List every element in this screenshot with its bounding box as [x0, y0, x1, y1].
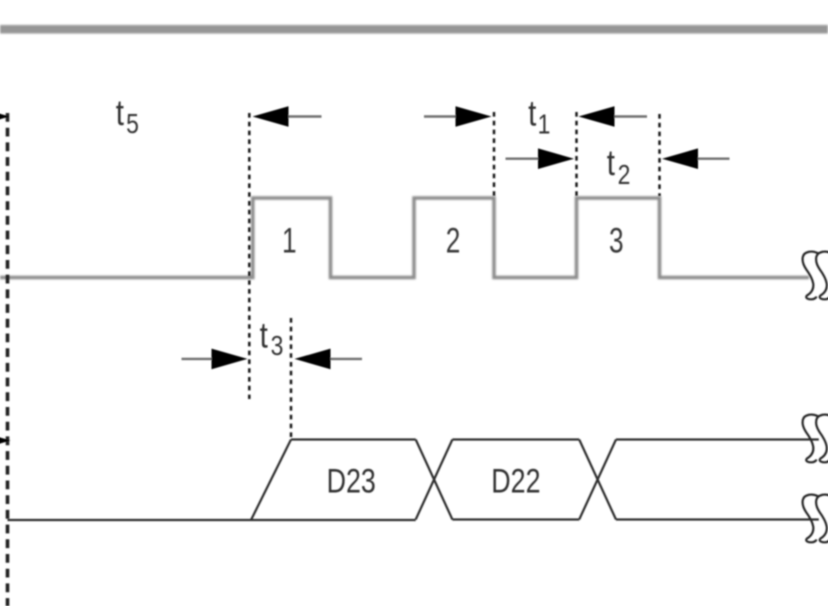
svg-text:t: t: [528, 93, 536, 133]
data bus D22 rails: [452, 440, 579, 520]
label D23: [327, 462, 376, 500]
label clock pulse 3: [609, 221, 624, 261]
svg-text:t: t: [116, 92, 124, 132]
label t3: [260, 315, 284, 362]
data bus DOUT bottom rail (idle through D23): [8, 519, 416, 521]
dashed line at clock rising edge 1: [248, 113, 251, 399]
bus top rail break squiggle: [803, 415, 828, 463]
svg-text:t: t: [607, 142, 615, 182]
svg-text:3: 3: [609, 221, 624, 261]
t5 arrow pointing left at edge-1 dashed line: [253, 106, 322, 127]
svg-text:3: 3: [271, 331, 284, 362]
label clock pulse 1: [282, 221, 297, 261]
t2 arrow pointing left at edge-3-fall dashed line: [662, 148, 730, 169]
t3 arrow pointing right at edge-1 dashed line: [182, 349, 248, 370]
dashed line at clock falling edge 3: [658, 114, 661, 196]
t1 arrow pointing right at edge-2 dashed line: [424, 106, 492, 127]
clock waveform SCLK: [0, 198, 809, 278]
svg-text:D22: D22: [491, 462, 540, 500]
clock break squiggle: [803, 252, 828, 300]
label clock pulse 2: [446, 221, 461, 261]
bus bottom rail break squiggle: [803, 495, 828, 543]
dashed line at clock rising edge 3: [575, 112, 578, 196]
data bus opening diagonal (t3 transition): [251, 440, 291, 521]
data bus D23 top rail: [291, 438, 416, 440]
left event dashed line: [6, 113, 10, 606]
top border line: [0, 25, 828, 34]
svg-text:1: 1: [282, 221, 297, 261]
t2 arrow pointing right at edge-3 dashed line: [506, 148, 575, 169]
arrowhead into left event line (data bus level, clipped at left edge): [0, 430, 11, 451]
label t5: [116, 92, 139, 139]
svg-text:t: t: [260, 315, 268, 355]
bus crossover X between D23 and D22: [416, 440, 453, 520]
arrowhead into left event line (row t5, clipped at left edge): [0, 106, 10, 127]
svg-text:5: 5: [126, 109, 139, 140]
svg-text:2: 2: [618, 160, 631, 191]
svg-text:D23: D23: [327, 462, 376, 500]
label t1: [528, 93, 550, 140]
t3 arrow pointing left at data-valid dashed line: [295, 349, 363, 370]
label t2: [607, 142, 631, 190]
svg-text:2: 2: [446, 221, 461, 261]
dashed line at clock falling edge 2: [493, 112, 496, 196]
t1 arrow pointing left at edge-3 dashed line: [579, 106, 648, 127]
data bus last segment rails: [616, 440, 819, 520]
svg-text:1: 1: [538, 109, 551, 140]
dashed line at data-valid (t3 right boundary): [290, 318, 293, 438]
label D22: [491, 462, 540, 500]
bus crossover X between D22 and next word: [579, 440, 616, 520]
